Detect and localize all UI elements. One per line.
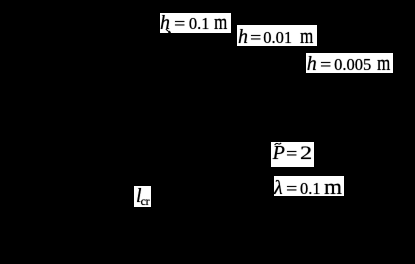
arrow under first label xyxy=(164,28,174,36)
label box h = 0.1 m xyxy=(160,13,231,34)
label box h = 0.005 m xyxy=(306,53,393,74)
label box P~ = 2 xyxy=(271,142,315,168)
label box lambda = 0.1 m xyxy=(274,176,345,196)
label box h = 0.01 m xyxy=(237,25,317,46)
label box l_cr xyxy=(134,186,151,207)
